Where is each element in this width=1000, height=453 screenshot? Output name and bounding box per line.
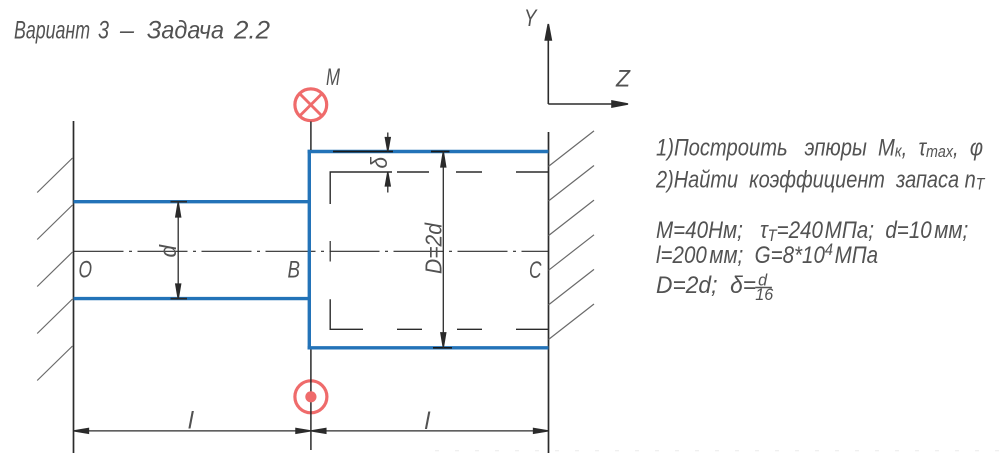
svg-text:2)Найти коэффициент запаса n: 2)Найти коэффициент запаса nТ: [655, 166, 986, 194]
svg-text:O: O: [79, 256, 93, 283]
svg-text:B: B: [288, 257, 301, 284]
svg-text:l: l: [188, 408, 194, 435]
svg-text:D=2d: D=2d: [420, 222, 446, 274]
svg-text:1)Построить эпюры Мк, τmax: 1)Построить эпюры Мк, τmax, φ: [656, 134, 983, 161]
svg-text:δ: δ: [366, 157, 392, 169]
svg-text:Z: Z: [615, 66, 631, 93]
svg-text:Y: Y: [524, 5, 538, 32]
svg-text:Вариант3–Задача2.2: Вариант3–Задача2.2: [14, 17, 270, 45]
svg-text:l=200мм; G=8*104МПа: l=200мм; G=8*104МПа: [656, 241, 878, 268]
svg-text:C: C: [529, 257, 542, 284]
svg-text:M: M: [326, 64, 340, 91]
svg-text:D=2d; δ=: D=2d; δ=: [656, 271, 756, 298]
svg-text:l: l: [425, 408, 431, 435]
svg-text:d: d: [155, 244, 181, 258]
